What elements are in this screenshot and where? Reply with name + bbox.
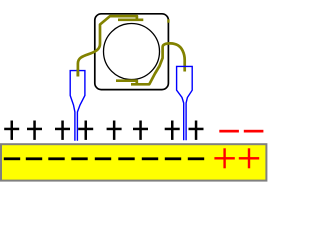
charge +1 <box>4 128 19 131</box>
charge -f <box>118 157 134 160</box>
charge +6 <box>133 128 148 131</box>
induced negative charges (red minus signs) <box>219 130 263 133</box>
charge +5 <box>107 128 122 131</box>
wire stub on meter right edge <box>167 19 169 22</box>
coil bottom lower bar + right lead wire to right probe <box>131 43 185 84</box>
charge -g <box>142 157 158 160</box>
coil top upper bar + left lead wire to left probe <box>78 16 137 76</box>
coil top lower bar <box>118 18 143 21</box>
plate negative charges (black minus signs) <box>4 157 204 160</box>
meter body (galvanometer G1 rounded square) <box>95 14 169 90</box>
charge -e <box>95 157 111 160</box>
charge -c <box>48 157 64 160</box>
charge -a <box>4 157 20 160</box>
right probe electrode (blue funnel) <box>177 66 193 140</box>
meter dial circle <box>104 24 160 80</box>
charge +8 <box>189 128 204 131</box>
left probe wire tip <box>76 69 79 77</box>
coil bottom upper bar <box>116 81 137 84</box>
charge -1 <box>219 130 239 133</box>
charge +a <box>214 157 234 159</box>
charge -d <box>71 157 87 160</box>
charge -2 <box>244 130 264 133</box>
charge -i <box>188 157 204 160</box>
charge +3 <box>55 128 70 131</box>
plate positive charges (red plus signs) <box>214 148 259 168</box>
charge +7 <box>165 128 180 131</box>
charged plate (yellow slab with gray border) <box>1 144 266 180</box>
charge +2 <box>27 128 42 131</box>
charge +4 <box>78 128 93 131</box>
induced positive charges row (black plus signs) <box>4 121 203 140</box>
charge -h <box>165 157 181 160</box>
charge +b <box>239 157 259 159</box>
left probe electrode (blue funnel) <box>70 71 85 141</box>
charge -b <box>26 157 42 160</box>
